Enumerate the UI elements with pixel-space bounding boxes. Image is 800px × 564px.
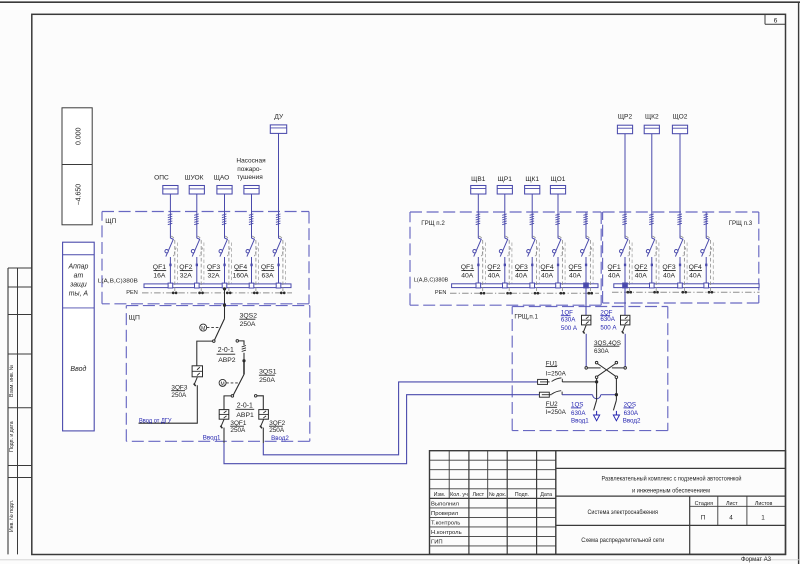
- panel box ШУОК: [189, 186, 204, 195]
- svg-text:Насосная: Насосная: [236, 157, 266, 164]
- panel box ЩО2: [672, 125, 687, 134]
- label 2QF/630А/500 А: [600, 309, 617, 331]
- svg-text:ЩВ1: ЩВ1: [471, 176, 486, 183]
- svg-text:Взам. инв. №: Взам. инв. №: [9, 364, 15, 397]
- label FU1/I=250А: [546, 360, 567, 377]
- wire Ввод2 cable to ГРЩ п.1 FU1: [263, 382, 537, 455]
- svg-text:Инв. № подл.: Инв. № подл.: [9, 500, 15, 532]
- svg-text:630А: 630А: [600, 316, 615, 323]
- svg-text:Формат А3: Формат А3: [741, 557, 772, 563]
- svg-text:Ввод1: Ввод1: [203, 434, 221, 441]
- switch blade after FU2: [551, 391, 562, 395]
- changeover АВР2 right contact: [236, 340, 244, 346]
- junction dots ГРЩп.3-QF2 PEN: [653, 291, 659, 294]
- svg-text:QF1: QF1: [153, 264, 166, 271]
- label ЩО1: [551, 176, 566, 183]
- svg-text:1: 1: [761, 515, 765, 522]
- wire ГРЩп.2-QF1 feeder riser: [477, 194, 479, 284]
- svg-text:40А: 40А: [569, 273, 582, 280]
- wire ГРЩп.2-QF2 feeder riser: [504, 194, 506, 284]
- label QF2/32А: [179, 264, 192, 279]
- coil ГРЩп.3-QF3: [677, 214, 682, 225]
- svg-text:№ док.: № док.: [489, 492, 506, 498]
- wire АВР1 left contact to 3QF1: [224, 396, 231, 410]
- circuit breaker QF4 160А (ЩП-QF4): [246, 236, 259, 292]
- svg-text:2-0-1: 2-0-1: [237, 402, 253, 409]
- label QF1/16А: [153, 264, 166, 279]
- svg-text:QF3: QF3: [207, 264, 220, 271]
- label ЩВ1: [471, 176, 486, 183]
- wire ГРЩп.3-QF1 feeder riser: [624, 134, 626, 284]
- wire FU2 to 2QS with hop: [562, 395, 616, 399]
- node ГРЩп.3-QF3 bus connection: [678, 283, 683, 288]
- svg-text:QF2: QF2: [179, 264, 192, 271]
- crossover switch 3QS,4QS: [585, 361, 627, 378]
- label QF3/40А: [662, 264, 675, 279]
- svg-text:250А: 250А: [269, 427, 285, 434]
- coil ЩП-QF5: [276, 214, 281, 225]
- label Подп. и дата: [9, 421, 15, 452]
- panel box ЩР2: [617, 125, 632, 134]
- panel box Насосная пожаротушения: [244, 186, 259, 195]
- wire ГРЩп.2-QF3 feeder riser: [531, 194, 533, 284]
- label Аппарат защиты, А: [67, 263, 88, 297]
- svg-text:250А: 250А: [240, 321, 256, 328]
- svg-text:Н.контроль: Н.контроль: [431, 530, 462, 536]
- label QF5/40А: [568, 264, 581, 279]
- fuse FU2: [539, 392, 551, 397]
- wire ЩП bus tap to 3QS2: [224, 288, 226, 319]
- node ЩП-QF1 bus connection: [168, 283, 173, 288]
- title block document name: [581, 508, 664, 544]
- svg-text:ты, А: ты, А: [69, 290, 89, 297]
- svg-text:QF4: QF4: [689, 264, 702, 271]
- node ГРЩп.3-QF2 bus connection: [650, 283, 655, 288]
- panel box ЩК1: [525, 186, 540, 195]
- svg-text:0.000: 0.000: [76, 127, 83, 145]
- label Формат А3: [741, 557, 772, 563]
- svg-text:ЩР2: ЩР2: [618, 114, 633, 121]
- svg-text:QF1: QF1: [607, 264, 620, 271]
- wire ЩП-QF1 feeder riser: [169, 194, 171, 284]
- svg-text:QF3: QF3: [515, 264, 528, 271]
- svg-text:40А: 40А: [541, 273, 554, 280]
- bus ГРЩ п.2 L(A,B,C)380В: [452, 284, 598, 288]
- svg-text:Проверил: Проверил: [431, 511, 459, 517]
- junction dots ЩП-QF4 PEN: [253, 292, 259, 295]
- svg-text:PEN: PEN: [435, 290, 447, 296]
- svg-text:ЩАО: ЩАО: [214, 175, 230, 182]
- panel ГРЩ п.2 dashed border: [410, 212, 601, 305]
- flexible link to 3QS1: [242, 346, 246, 361]
- label QF3/32А: [207, 264, 220, 279]
- circuit breaker QF1 16А (ЩП-QF1): [165, 236, 178, 292]
- wire Ввод1 cable to ГРЩ п.1 FU2: [224, 395, 539, 464]
- circuit breaker 1QF (draw-out): [582, 315, 591, 325]
- circuit breaker QF3 40А (ГРЩп.3-QF3): [675, 236, 688, 291]
- junction dots ГРЩп.2-QF4 PEN: [559, 292, 565, 295]
- sheet outer top edge: [0, 1, 800, 3]
- svg-text:Ввод2: Ввод2: [271, 435, 289, 442]
- wire ГРЩп.3-QF4 feeder riser: [705, 212, 707, 283]
- svg-text:40А: 40А: [488, 273, 501, 280]
- junction dots ГРЩп.3-QF1 PEN: [626, 291, 632, 294]
- svg-text:ГРЩ,п.1: ГРЩ,п.1: [514, 313, 538, 320]
- hook below 1QF: [583, 325, 586, 334]
- wire ЩП-QF4 feeder riser: [251, 194, 253, 284]
- junction at panel boundary: [223, 304, 226, 307]
- svg-text:16А: 16А: [153, 273, 166, 280]
- svg-text:АВР2: АВР2: [218, 357, 236, 364]
- svg-text:Ввод1: Ввод1: [571, 417, 589, 424]
- hook below 3QF2: [260, 419, 264, 428]
- circuit breaker QF5 63А (ЩП-QF5): [273, 236, 286, 292]
- svg-text:QF3: QF3: [662, 264, 675, 271]
- motor drive M of 3QS2: [200, 324, 220, 332]
- label 3QS,4QS/630А: [594, 340, 621, 355]
- junction dots ГРЩп.2-QF2 PEN: [506, 292, 512, 295]
- svg-text:ЩП: ЩП: [105, 218, 116, 225]
- svg-text:32А: 32А: [207, 273, 220, 280]
- junction dots ЩП-QF5 PEN: [280, 292, 286, 295]
- svg-text:32А: 32А: [180, 273, 193, 280]
- panel box ЩК2: [644, 125, 659, 134]
- label ГРЩ,п.1: [514, 313, 538, 320]
- node ЩП-QF3 bus connection: [222, 283, 227, 288]
- svg-text:630А: 630А: [571, 410, 586, 417]
- svg-text:630А: 630А: [594, 348, 610, 355]
- wire ГРЩп.3-QF2 feeder riser: [651, 134, 653, 284]
- sheet outer right edge: [798, 2, 800, 564]
- wire 2QF riser from п.3 bus: [624, 288, 626, 316]
- junction dots ГРЩп.2-QF3 PEN: [534, 292, 540, 295]
- svg-text:М: М: [221, 381, 225, 387]
- label Инв. № подл.: [9, 500, 15, 532]
- svg-text:ГРЩ п.3: ГРЩ п.3: [729, 220, 753, 227]
- wire ЩП-QF3 feeder riser: [224, 194, 226, 284]
- label ЩР2: [618, 114, 633, 121]
- svg-text:I=250А: I=250А: [546, 370, 567, 377]
- svg-text:QF4: QF4: [234, 264, 247, 271]
- svg-text:ат: ат: [74, 272, 84, 279]
- panel ГРЩ п.3 dashed border: [603, 212, 759, 303]
- junction dots ЩП-QF3 PEN: [226, 292, 232, 295]
- bus ЩП L(A,B,C)380В: [144, 284, 291, 288]
- circuit breaker QF5 40А (ГРЩп.2-QF5): [581, 236, 594, 292]
- svg-text:пожаро-: пожаро-: [237, 166, 261, 173]
- junction 1QS top: [595, 380, 598, 383]
- wire ГРЩп.3-QF3 feeder riser: [679, 134, 681, 284]
- label ГРЩ п.3: [729, 220, 753, 227]
- svg-text:L(A,B,C)380В: L(A,B,C)380В: [414, 278, 449, 284]
- title block project name: [602, 475, 742, 495]
- switch 3QS1 blade: [231, 361, 244, 397]
- hook below 3QF3: [194, 377, 198, 386]
- svg-text:40А: 40А: [515, 273, 528, 280]
- label Ввод от ДГУ: [139, 417, 172, 424]
- label ДУ: [274, 113, 284, 120]
- svg-text:ШУОК: ШУОК: [185, 175, 204, 182]
- junction 3QS1 top: [242, 359, 245, 362]
- label ЩК1: [525, 176, 539, 183]
- svg-text:QF2: QF2: [487, 264, 500, 271]
- svg-text:Подп. и дата: Подп. и дата: [9, 421, 15, 452]
- coil ГРЩп.3-QF4: [704, 214, 709, 225]
- switch 2QS blade and input arrow Ввод2: [613, 379, 619, 421]
- junction 2QS top: [615, 393, 618, 396]
- circuit breaker QF3 40А (ГРЩп.2-QF3): [527, 236, 540, 292]
- svg-text:тушения: тушения: [237, 174, 263, 181]
- label 3QF2/250А: [269, 420, 286, 434]
- node ГРЩп.2-QF4 bus connection: [556, 283, 561, 288]
- label 3QF1/250А: [230, 420, 247, 434]
- coil ГРЩп.2-QF1: [476, 214, 481, 225]
- circuit breaker QF2 32А (ЩП-QF2): [191, 236, 204, 292]
- label ШУОК: [185, 175, 204, 182]
- motor drive M of 3QS1: [219, 379, 238, 387]
- panel ГРЩ п.1 dashed border: [512, 307, 668, 431]
- label Насосная пожаро-тушения: [236, 157, 266, 181]
- node ЩП-QF5 bus connection: [276, 283, 281, 288]
- junction dots ГРЩп.2-QF1 PEN: [480, 292, 486, 295]
- coil ГРЩп.3-QF1: [622, 214, 627, 225]
- svg-text:Стадия: Стадия: [695, 501, 713, 507]
- sheet faint bottom edge: [0, 559, 800, 561]
- coil ГРЩп.2-QF2: [502, 214, 507, 225]
- svg-text:Листов: Листов: [755, 501, 773, 507]
- svg-text:Система электроснабжения: Система электроснабжения: [588, 508, 659, 516]
- svg-text:3QS1: 3QS1: [259, 368, 277, 375]
- svg-text:630А: 630А: [624, 410, 639, 417]
- label Взам. инв. №: [9, 364, 15, 397]
- panel box ЩО1: [550, 186, 565, 195]
- svg-text:ЩК2: ЩК2: [645, 114, 659, 121]
- junction dots ГРЩп.3-QF4 PEN: [708, 291, 714, 294]
- svg-text:защи: защи: [69, 281, 87, 288]
- label 1QF/630А/500 А: [561, 309, 578, 331]
- svg-text:40А: 40А: [663, 273, 676, 280]
- svg-text:L(A,B,C)380В: L(A,B,C)380В: [98, 278, 138, 284]
- svg-text:Развлекательный комплекс с под: Развлекательный комплекс с подземной авт…: [602, 475, 742, 483]
- svg-text:П: П: [701, 515, 706, 522]
- wire ГРЩп.2-QF5 feeder riser: [585, 212, 587, 283]
- circuit breaker QF1 40А (ГРЩп.2-QF1): [473, 236, 486, 292]
- junction dots 1QF PEN: [587, 292, 593, 295]
- circuit breaker QF2 40А (ГРЩп.3-QF2): [646, 236, 659, 291]
- svg-text:ГИП: ГИП: [431, 540, 443, 546]
- circuit breaker QF2 40А (ГРЩп.2-QF2): [499, 236, 512, 292]
- wire 1QF to changeover: [585, 334, 587, 367]
- junction dots ЩП-QF2 PEN: [198, 292, 204, 295]
- panel box ДУ: [270, 125, 286, 133]
- svg-text:QF1: QF1: [461, 264, 474, 271]
- svg-text:Схема распределительной сети: Схема распределительной сети: [581, 536, 664, 544]
- circuit breaker 3QF2 (draw-out): [259, 410, 269, 420]
- PEN conductor ЩП: [142, 292, 292, 294]
- label Ввод2 (ЩП): [271, 435, 289, 442]
- switch blade after FU1: [552, 378, 596, 382]
- junction dots ГРЩп.3-QF3 PEN: [681, 291, 687, 294]
- junction dots ЩП-QF1 PEN: [172, 292, 178, 295]
- svg-text:QF5: QF5: [568, 264, 581, 271]
- coil ЩП-QF3: [222, 214, 227, 225]
- junction dots 2QF PEN: [626, 291, 632, 294]
- left margin column grid: [8, 268, 32, 554]
- elevation marks table: [62, 108, 92, 225]
- node ГРЩп.2-QF5 bus connection: [584, 283, 589, 288]
- panel box ЩР1: [497, 186, 512, 195]
- panel ЩП (lower section) dashed border: [126, 306, 309, 442]
- coil ГРЩп.3-QF2: [649, 214, 654, 225]
- title block signature rows: [431, 502, 462, 546]
- fuse FU1: [538, 379, 550, 384]
- svg-text:250А: 250А: [259, 377, 275, 384]
- label 1QS/630А/Ввод1: [571, 402, 589, 425]
- PEN conductor ГРЩ п.3: [612, 291, 760, 293]
- label FU2/I=250А: [546, 401, 567, 416]
- label Ввод1 (ЩП): [203, 434, 221, 441]
- changeover АВР1 right contact: [254, 395, 263, 410]
- svg-text:I=250А: I=250А: [546, 409, 567, 416]
- circuit breaker 2QF (draw-out): [621, 315, 630, 325]
- wire 1QF riser from п.2 bus: [585, 288, 587, 316]
- svg-text:ГРЩ п.2: ГРЩ п.2: [421, 220, 445, 227]
- label QF2/40А: [634, 264, 647, 279]
- node ГРЩп.2-QF2 bus connection: [503, 283, 508, 288]
- coil ЩП-QF4: [249, 214, 254, 225]
- label 2QS/630А/Ввод2: [623, 402, 641, 425]
- panel box ЩАО: [217, 186, 232, 195]
- svg-text:QF4: QF4: [540, 264, 553, 271]
- svg-text:3QS2: 3QS2: [240, 313, 258, 320]
- label 3QF3/250А: [171, 384, 188, 398]
- svg-text:Подп.: Подп.: [515, 492, 529, 498]
- svg-text:Выполнил: Выполнил: [431, 502, 459, 508]
- node ГРЩп.3-QF1 bus connection: [623, 283, 628, 288]
- panel ЩП (upper section) dashed border: [102, 212, 309, 304]
- svg-text:63А: 63А: [261, 273, 274, 280]
- label QF2/40А: [487, 264, 500, 279]
- label ЩК2: [645, 114, 659, 121]
- label QF3/40А: [515, 264, 528, 279]
- panel box ОПС: [163, 186, 178, 195]
- node п.2 bus to 1QF (filled): [584, 283, 589, 288]
- label ЩП lower: [129, 314, 140, 321]
- svg-text:40А: 40А: [635, 273, 648, 280]
- svg-text:Дата: Дата: [540, 492, 552, 498]
- label QF4/40А: [540, 264, 553, 279]
- wire АВР2 left contact to 3QF3: [197, 341, 213, 366]
- coil ЩП-QF1: [168, 214, 173, 225]
- node ГРЩп.3-QF4 bus connection: [704, 283, 709, 288]
- svg-text:Изм.: Изм.: [434, 492, 446, 498]
- switch 1QS blade and input arrow Ввод1: [594, 379, 600, 421]
- node ЩП-QF2 bus connection: [195, 283, 200, 288]
- svg-text:QF2: QF2: [634, 264, 647, 271]
- label 2-0-1 / АВР2: [217, 347, 236, 364]
- svg-text:40А: 40А: [461, 273, 474, 280]
- wire 3QF3 to ДГУ input: [139, 385, 198, 423]
- svg-text:Ввод: Ввод: [70, 365, 86, 373]
- svg-text:500 А: 500 А: [600, 324, 617, 331]
- label ЩО2: [673, 114, 688, 121]
- svg-text:500 А: 500 А: [561, 325, 578, 332]
- label QF4/160А: [233, 264, 249, 279]
- circuit breaker QF1 40А (ГРЩп.3-QF1): [620, 236, 633, 291]
- label 3QS2/250А: [239, 313, 257, 329]
- circuit breaker QF4 40А (ГРЩп.2-QF4): [553, 236, 566, 292]
- title block header labels: [434, 492, 553, 498]
- hook below 2QF: [622, 325, 625, 334]
- label 3QS1/250А: [259, 368, 277, 384]
- junction dots ГРЩп.2-QF5 PEN: [587, 292, 593, 295]
- sheet number cell with 6: [765, 14, 786, 24]
- svg-text:40А: 40А: [689, 273, 702, 280]
- svg-text:Кол. уч: Кол. уч: [450, 492, 468, 498]
- svg-text:Лист: Лист: [472, 492, 484, 498]
- node ГРЩп.2-QF1 bus connection: [476, 283, 481, 288]
- svg-text:и инженерным обеспечением: и инженерным обеспечением: [632, 486, 710, 494]
- label L(A,B,C)380В (ЩП): [98, 278, 138, 284]
- svg-text:Ввод от ДГУ: Ввод от ДГУ: [139, 417, 172, 424]
- bus ГРЩ п.3: [614, 284, 759, 288]
- PEN conductor ГРЩ п.2: [450, 292, 599, 294]
- label QF1/40А: [607, 264, 620, 279]
- node п.3 bus to 2QF (filled): [623, 283, 628, 288]
- label Ввод: [70, 365, 86, 373]
- wire ЩП-QF5 feeder riser: [278, 133, 280, 284]
- circuit breaker 3QF1 (draw-out): [219, 410, 229, 420]
- svg-text:250А: 250А: [230, 427, 246, 434]
- svg-text:ЩК1: ЩК1: [525, 176, 539, 183]
- svg-text:250А: 250А: [171, 392, 187, 399]
- svg-text:2-0-1: 2-0-1: [218, 347, 234, 354]
- label QF5/63А: [261, 264, 274, 279]
- svg-text:Ввод2: Ввод2: [623, 417, 641, 424]
- label ЩАО: [214, 175, 230, 182]
- node ЩП-QF4 bus connection: [249, 283, 254, 288]
- switch 3QS2 blade: [213, 319, 225, 343]
- label QF4/40А: [689, 264, 702, 279]
- hook below 3QF1: [220, 419, 224, 428]
- legend column box: [63, 242, 95, 431]
- wire ЩП-QF2 feeder riser: [196, 194, 198, 284]
- svg-text:QF5: QF5: [261, 264, 274, 271]
- coil ЩП-QF2: [194, 214, 199, 225]
- coil ГРЩп.2-QF3: [530, 214, 535, 225]
- svg-text:Лист: Лист: [726, 501, 738, 507]
- label PEN (п.2): [435, 290, 447, 296]
- svg-text:4: 4: [729, 515, 733, 522]
- circuit breaker QF4 40А (ГРЩп.3-QF4): [701, 236, 714, 291]
- label ГРЩ п.2: [421, 220, 445, 227]
- svg-text:М: М: [201, 326, 205, 332]
- svg-text:−4.650: −4.650: [76, 184, 83, 206]
- svg-text:ЩР1: ЩР1: [498, 176, 513, 183]
- junction bus tap: [223, 287, 226, 290]
- svg-text:PEN: PEN: [126, 290, 138, 296]
- svg-text:АВР1: АВР1: [236, 412, 254, 419]
- label QF1/40А: [461, 264, 474, 279]
- svg-text:6: 6: [774, 17, 778, 24]
- circuit breaker 3QF3 (draw-out): [192, 366, 202, 377]
- svg-text:ЩП: ЩП: [129, 314, 140, 321]
- svg-text:ДУ: ДУ: [274, 113, 284, 120]
- circuit breaker QF3 32А (ЩП-QF3): [219, 236, 232, 292]
- title block stage/sheet cells: [695, 501, 773, 522]
- node ГРЩп.2-QF3 bus connection: [530, 283, 535, 288]
- wire ГРЩп.2-QF4 feeder riser: [557, 194, 559, 284]
